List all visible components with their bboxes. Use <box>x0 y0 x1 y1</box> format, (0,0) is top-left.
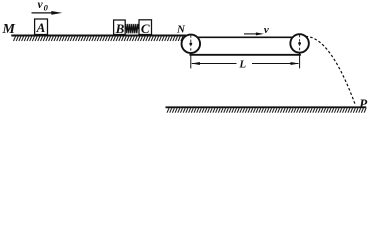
svg-text:v: v <box>264 24 269 36</box>
pulley left <box>182 35 201 54</box>
block B <box>114 20 126 35</box>
belt velocity arrow <box>244 32 264 35</box>
svg-text:P: P <box>359 96 368 111</box>
pulley left center line <box>190 35 192 68</box>
svg-text:0: 0 <box>44 3 49 13</box>
projectile trajectory <box>306 36 356 105</box>
svg-text:N: N <box>176 24 186 36</box>
arrow v0 <box>32 11 63 15</box>
block C <box>139 20 152 35</box>
svg-text:B: B <box>115 21 125 36</box>
lower ground line <box>166 106 367 108</box>
spring between B and C <box>125 24 139 33</box>
dimension arrow left <box>191 62 236 65</box>
upper surface line M-N <box>11 34 186 36</box>
pulley right center line <box>299 35 301 69</box>
lower ground hatching <box>167 108 366 113</box>
svg-text:C: C <box>141 21 150 36</box>
belt bottom line <box>190 54 301 56</box>
label v0 <box>38 0 49 13</box>
pulley right axle dot <box>298 42 301 45</box>
dimension arrow right <box>252 62 299 65</box>
block A <box>35 19 48 35</box>
svg-text:L: L <box>238 59 246 71</box>
pulley left axle dot <box>189 42 192 45</box>
svg-text:A: A <box>36 20 46 35</box>
upper surface hatching <box>14 36 183 41</box>
pulley right <box>290 34 309 53</box>
belt top line <box>191 36 300 38</box>
svg-text:v: v <box>38 0 44 11</box>
